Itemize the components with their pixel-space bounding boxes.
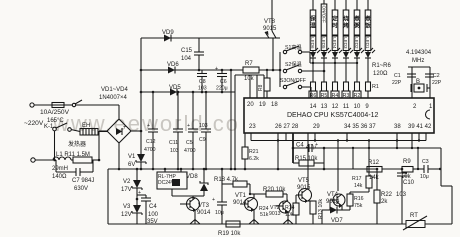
- svg-text:烤: 烤: [343, 22, 349, 30]
- capacitor C6 220u: [221, 70, 223, 74]
- svg-text:C8: C8: [199, 79, 206, 85]
- resistor R4: [333, 82, 338, 91]
- svg-text:饭: 饭: [364, 22, 371, 30]
- capacitor C7 984J 630V: [55, 160, 57, 172]
- svg-text:C6: C6: [220, 79, 227, 85]
- svg-text:R18 4.7k: R18 4.7k: [214, 177, 239, 183]
- svg-text:MHz: MHz: [412, 58, 424, 64]
- capacitor C1 22P: [407, 73, 416, 75]
- pin 38 wire: [396, 133, 398, 148]
- svg-text:C7 984J: C7 984J: [72, 178, 94, 184]
- wire: [54, 131, 56, 160]
- svg-text:VT1: VT1: [235, 193, 247, 199]
- svg-text:V2: V2: [123, 179, 131, 185]
- LEFT POWER SECTION: [24, 87, 146, 192]
- svg-text:RT: RT: [410, 213, 418, 219]
- svg-text:10μ: 10μ: [420, 174, 429, 180]
- svg-text:VT3: VT3: [198, 203, 210, 209]
- LOWER RIGHT: [190, 133, 452, 230]
- wire: [34, 104, 52, 106]
- rail wire 148: [293, 147, 441, 149]
- svg-text:+: +: [212, 197, 215, 203]
- svg-text:17V: 17V: [121, 187, 132, 193]
- svg-text:发热器: 发热器: [68, 140, 86, 148]
- pin 34 wire: [346, 133, 348, 141]
- svg-text:+: +: [138, 190, 141, 196]
- svg-text:1N4007×4: 1N4007×4: [99, 95, 128, 101]
- svg-text:R21: R21: [249, 149, 259, 155]
- svg-text:LED4: LED4: [332, 37, 337, 49]
- svg-text:定: 定: [332, 15, 338, 23]
- wire: [230, 70, 232, 169]
- svg-text:103: 103: [199, 123, 208, 129]
- bottom rail wire: [108, 223, 452, 225]
- svg-text:14: 14: [310, 104, 317, 110]
- TOP DIODE LOOP: [140, 30, 272, 170]
- resistor R3: [344, 82, 349, 91]
- resistor R7 10k: [243, 67, 259, 73]
- svg-text:51k: 51k: [260, 212, 269, 218]
- pin 29 wire: [314, 133, 316, 141]
- resistor R9 10k: [382, 168, 402, 170]
- resistor R8: [264, 78, 270, 91]
- svg-text:9015: 9015: [263, 26, 277, 32]
- svg-text:R16: R16: [354, 196, 364, 202]
- svg-text:+: +: [187, 123, 190, 129]
- transistor VT2 9013: [279, 201, 291, 213]
- resistor R1: [366, 82, 371, 91]
- svg-text:+: +: [147, 123, 150, 129]
- relay RL-7HP DC24V: [164, 169, 166, 172]
- VD6 rail wire: [141, 69, 243, 71]
- svg-text:12V: 12V: [121, 212, 132, 218]
- wire: [118, 105, 120, 119]
- svg-text:C10: C10: [403, 180, 415, 186]
- LED LED1: [367, 51, 369, 53]
- LED LED6: [312, 51, 314, 53]
- svg-text:LED5: LED5: [321, 37, 326, 49]
- svg-text:22P: 22P: [432, 80, 442, 86]
- resistor R2: [355, 82, 360, 91]
- wire: [408, 66, 430, 68]
- wire to CPU pins 20 19 18: [234, 75, 236, 92]
- resistor R5: [322, 82, 327, 91]
- svg-text:R9: R9: [403, 159, 411, 165]
- svg-text:630V: 630V: [74, 186, 88, 192]
- svg-text:10: 10: [354, 104, 361, 110]
- svg-text:18: 18: [271, 102, 278, 108]
- wire bump VT3 emitter: [190, 220, 200, 225]
- wire: [131, 130, 141, 132]
- svg-text:R14: R14: [285, 205, 295, 211]
- svg-text:煮: 煮: [353, 15, 360, 23]
- node column 4: [342, 0, 353, 99]
- capacitor C12 4700: [152, 92, 154, 129]
- capacitor C13 10u: [221, 169, 223, 202]
- wire: [417, 148, 419, 169]
- svg-text:26 27 28: 26 27 28: [275, 124, 299, 130]
- svg-text:ON/OFF: ON/OFF: [321, 6, 326, 24]
- svg-text:104: 104: [181, 56, 192, 62]
- svg-text:39 41 42: 39 41 42: [408, 124, 432, 130]
- svg-text:11: 11: [343, 104, 350, 110]
- svg-text:10k: 10k: [244, 76, 255, 82]
- capacitor C10 103: [401, 169, 403, 173]
- wire: [118, 143, 120, 169]
- svg-text:10μ: 10μ: [215, 210, 224, 216]
- zener V2 17V: [136, 169, 138, 180]
- svg-text:9013: 9013: [269, 211, 281, 217]
- svg-text:103: 103: [396, 192, 407, 198]
- svg-text:13: 13: [321, 104, 328, 110]
- svg-text:34 35 36 37: 34 35 36 37: [344, 124, 376, 130]
- CRYSTAL: [392, 50, 442, 98]
- LOWER MIDDLE: [108, 133, 452, 237]
- svg-text:29: 29: [313, 124, 320, 130]
- capacitor C15 104: [198, 38, 200, 52]
- LED COLUMNS: [309, 0, 392, 99]
- svg-text:120Ω: 120Ω: [373, 71, 388, 77]
- svg-text:C2: C2: [433, 73, 440, 79]
- capacitor C3 10u: [413, 168, 424, 170]
- left return wire: [107, 169, 109, 224]
- top rail wire: [141, 37, 272, 39]
- thermal switch 165°C: [64, 104, 72, 106]
- svg-text:R1: R1: [372, 84, 379, 90]
- svg-text:C1: C1: [394, 73, 401, 79]
- svg-text:2k: 2k: [381, 199, 388, 205]
- svg-text:LED6: LED6: [310, 37, 315, 49]
- transistor VT3 9014: [187, 198, 200, 211]
- svg-text:C5: C5: [186, 140, 193, 146]
- svg-text:C4: C4: [296, 143, 304, 149]
- svg-text:R1~R6: R1~R6: [372, 63, 392, 69]
- resistor R14 10k: [293, 203, 299, 215]
- wire bump VT1 emitter: [249, 220, 259, 225]
- svg-text:9014: 9014: [233, 200, 247, 206]
- node column 6: [364, 0, 379, 98]
- LED LED5: [323, 51, 325, 53]
- svg-text:12: 12: [332, 104, 339, 110]
- zener V3 12V: [136, 198, 139, 201]
- svg-text:C4: C4: [149, 204, 157, 210]
- svg-text:+: +: [123, 125, 127, 131]
- svg-text:DEHAO CPU KS57C4004-12: DEHAO CPU KS57C4004-12: [287, 112, 379, 119]
- pin 28 wire: [292, 133, 294, 163]
- svg-text:+: +: [215, 66, 218, 72]
- svg-text:LED3: LED3: [343, 37, 348, 49]
- switch bus wire: [279, 52, 281, 87]
- svg-text:38: 38: [394, 124, 401, 130]
- capacitor C9 103: [205, 92, 207, 129]
- svg-text:VD9: VD9: [162, 30, 174, 36]
- svg-text:14k: 14k: [369, 175, 380, 181]
- svg-text:20: 20: [247, 102, 254, 108]
- svg-text:VD8: VD8: [186, 174, 198, 180]
- svg-text:时: 时: [332, 22, 338, 30]
- svg-text:10A/250V: 10A/250V: [40, 109, 70, 116]
- capacitor C5 4700: [192, 92, 194, 129]
- LED LED4: [334, 51, 336, 53]
- svg-text:75k: 75k: [354, 203, 363, 209]
- fuse FU 10A/250V: [52, 103, 64, 108]
- wire: [98, 131, 108, 133]
- svg-text:4.194304: 4.194304: [406, 50, 432, 56]
- svg-text:烧: 烧: [343, 15, 349, 23]
- zener V1 6V: [140, 131, 142, 154]
- wire: [98, 159, 101, 162]
- svg-text:R17: R17: [352, 176, 362, 182]
- node column 2: [320, 0, 331, 99]
- svg-text:VT8: VT8: [264, 19, 276, 25]
- pin 23 wire: [250, 133, 252, 141]
- svg-text:R12: R12: [368, 160, 380, 166]
- pin 27 wire: [285, 133, 287, 141]
- wire bump VT2 emitter: [283, 220, 293, 225]
- LED LED3: [345, 51, 347, 53]
- CPU: [244, 98, 434, 133]
- svg-text:C12: C12: [146, 139, 156, 145]
- svg-text:14k: 14k: [354, 183, 363, 189]
- capacitor C11 103: [177, 92, 179, 129]
- resistor R16 75k: [349, 206, 351, 210]
- svg-text:22P: 22P: [392, 80, 402, 86]
- VD5 rail wire: [141, 91, 235, 93]
- svg-text:煮: 煮: [364, 15, 371, 23]
- svg-text:140Ω: 140Ω: [52, 174, 67, 180]
- node column 3: [331, 0, 342, 99]
- KEY/LED MATRIX: [243, 0, 358, 98]
- svg-text:保: 保: [309, 15, 316, 23]
- svg-text:R22: R22: [381, 192, 393, 198]
- capacitor C8 103: [201, 70, 203, 74]
- resistor R21 6.2k: [244, 133, 246, 147]
- svg-text:R7: R7: [245, 61, 253, 67]
- op-amp U1 DEHAO CPU KS57C4004-12: [244, 98, 434, 133]
- svg-text:19: 19: [259, 102, 266, 108]
- svg-text:VD1~VD4: VD1~VD4: [101, 87, 129, 93]
- svg-text:~220V: ~220V: [24, 120, 44, 127]
- svg-text:4700: 4700: [144, 147, 156, 153]
- svg-text:9014: 9014: [197, 210, 211, 216]
- rail 24V wire: [108, 168, 377, 170]
- svg-text:R8: R8: [258, 84, 264, 91]
- svg-text:4700: 4700: [184, 148, 196, 154]
- node column 5: [353, 0, 364, 99]
- svg-text:C9: C9: [199, 137, 206, 143]
- capacitor C2 22P: [425, 73, 434, 75]
- svg-text:C11: C11: [169, 140, 178, 146]
- svg-text:V3: V3: [123, 204, 131, 210]
- node column 1: [309, 0, 320, 99]
- pin 26 wire: [277, 133, 279, 169]
- wire to VT4: [337, 141, 339, 192]
- svg-text:C15: C15: [181, 48, 193, 54]
- svg-text:LED2: LED2: [354, 37, 359, 49]
- resistor R22 2k: [376, 169, 378, 190]
- svg-text:R13 10k: R13 10k: [318, 199, 324, 219]
- svg-text:29mH: 29mH: [52, 166, 68, 172]
- LED LED2: [356, 51, 358, 53]
- svg-text:LED1: LED1: [365, 37, 370, 49]
- resistor R6: [311, 82, 316, 91]
- svg-text:R19 10k: R19 10k: [218, 231, 241, 237]
- wire right loop: [440, 148, 442, 186]
- wire: [234, 92, 236, 169]
- svg-text:100: 100: [148, 212, 159, 218]
- svg-text:10k: 10k: [285, 212, 294, 218]
- svg-text:103: 103: [170, 148, 179, 154]
- svg-text:23: 23: [249, 124, 256, 130]
- pin 39 41 42 wires: [411, 133, 413, 148]
- svg-text:6.2k: 6.2k: [249, 156, 259, 162]
- resistor R19 10k: [226, 221, 240, 227]
- svg-text:6V: 6V: [128, 162, 135, 168]
- svg-text:103: 103: [198, 86, 207, 92]
- terminal N: [31, 158, 35, 162]
- svg-text:温: 温: [310, 22, 316, 30]
- resistor R17 14k: [368, 141, 370, 177]
- svg-text:粥: 粥: [354, 22, 360, 30]
- svg-text:35V: 35V: [147, 219, 158, 225]
- rail wire 140: [251, 140, 426, 142]
- terminal L: [30, 103, 34, 107]
- svg-text:S1高温: S1高温: [285, 43, 302, 51]
- capacitor C4 100/35V: [137, 194, 146, 196]
- svg-text:V1: V1: [128, 154, 136, 160]
- svg-text:+: +: [315, 142, 318, 148]
- resistor R11 1.5M: [73, 157, 92, 163]
- diode VD7: [322, 209, 330, 211]
- svg-text:C3: C3: [422, 159, 429, 165]
- svg-text:220μ: 220μ: [216, 86, 228, 92]
- matrix wire row B: [310, 62, 357, 64]
- wire left rail: [140, 38, 142, 131]
- wire: [352, 148, 354, 169]
- resistor R13 10k: [308, 200, 313, 202]
- svg-text:VD7: VD7: [331, 218, 343, 224]
- transistor VT1 9014: [245, 198, 258, 211]
